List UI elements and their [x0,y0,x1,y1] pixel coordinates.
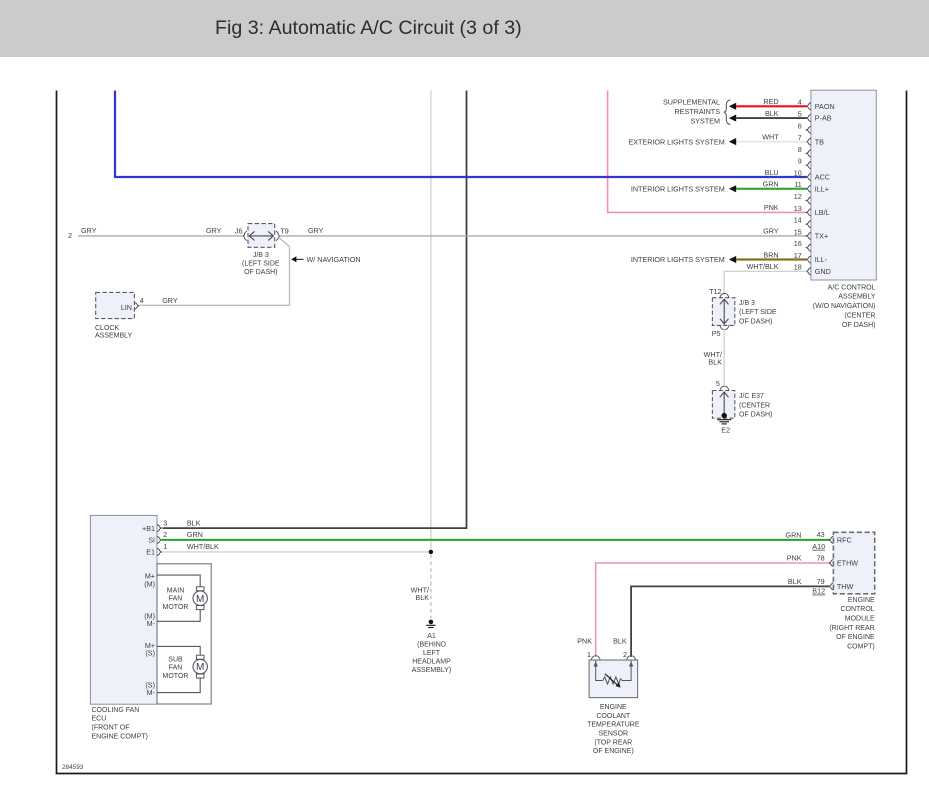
svg-text:LEFT: LEFT [423,650,441,657]
svg-text:INTERIOR LIGHTS SYSTEM: INTERIOR LIGHTS SYSTEM [631,255,725,264]
wire: BLU from top to A/C pin 10 ACC [115,91,807,178]
clock assembly box [96,292,135,318]
svg-text:GRY: GRY [162,296,178,305]
svg-text:ILL-: ILL- [815,255,828,264]
svg-text:(CENTER: (CENTER [739,402,770,409]
svg-text:OF DASH): OF DASH) [244,269,277,276]
svg-text:5: 5 [798,109,802,118]
svg-text:P5: P5 [712,329,721,338]
svg-text:FAN: FAN [169,596,183,603]
svg-text:A10: A10 [812,542,825,551]
J/B 3 junction block (J6/T9) [248,224,275,248]
svg-text:E1: E1 [146,548,155,557]
svg-text:2: 2 [163,530,167,539]
svg-text:(LEFT SIDE: (LEFT SIDE [242,261,280,268]
svg-text:ECU: ECU [92,716,107,723]
sub fan motor M [196,655,204,659]
svg-text:MOTOR: MOTOR [163,673,189,680]
wire: GRY from T9 down to clock assembly [139,237,289,305]
diagram border frame [57,91,907,774]
pin THW 79 [829,583,834,590]
sensor internal wiring [596,661,603,681]
A/C pin 10 [806,173,811,180]
wire: GRN from SI to ECM RFC [162,539,829,541]
supplemental restraints system brace [724,100,730,125]
svg-text:OF ENGINE): OF ENGINE) [593,748,634,755]
svg-text:M: M [196,662,204,673]
J/B 3 internal bus arrow [250,235,274,237]
svg-text:7: 7 [798,133,802,142]
svg-text:(BEHIND: (BEHIND [417,641,446,648]
svg-text:ASSEMBLY): ASSEMBLY) [412,667,452,674]
svg-text:2: 2 [623,650,627,659]
svg-text:CLOCK: CLOCK [95,325,119,332]
svg-text:J/B 3: J/B 3 [253,252,269,259]
svg-text:EXTERIOR LIGHTS SYSTEM: EXTERIOR LIGHTS SYSTEM [628,137,724,146]
svg-text:(FRONT OF: (FRONT OF [92,725,130,732]
A/C pin 8 [806,150,811,157]
svg-text:GRY: GRY [206,226,222,235]
svg-text:J/B 3: J/B 3 [739,300,755,307]
svg-text:OF ENGINE: OF ENGINE [836,634,875,641]
svg-text:MOTOR: MOTOR [163,604,189,611]
wire: PNK ETHW to sensor pin 1 [596,563,830,657]
svg-text:(LEFT SIDE: (LEFT SIDE [739,309,777,316]
wire: BLK THW to sensor pin 2 [631,586,829,657]
svg-text:ETHW: ETHW [837,559,858,568]
svg-text:OF DASH): OF DASH) [842,322,875,329]
svg-text:78: 78 [817,554,825,563]
svg-text:10: 10 [794,168,802,177]
svg-text:13: 13 [794,204,802,213]
svg-text:MODULE: MODULE [845,616,875,623]
svg-text:(RIGHT REAR: (RIGHT REAR [829,625,874,632]
svg-text:6: 6 [798,121,802,130]
svg-text:PNK: PNK [764,203,779,212]
svg-text:P-AB: P-AB [815,114,832,123]
svg-text:1: 1 [587,650,591,659]
wire: WHT/BLK dashed drop to ground A1 [430,555,432,618]
svg-text:ENGINE COMPT): ENGINE COMPT) [92,733,148,740]
wire: GRY from T9 to A/C pin 15 TX+ [280,235,807,237]
svg-text:GRN: GRN [763,180,779,189]
svg-text:ASSEMBLY: ASSEMBLY [95,333,133,340]
svg-text:INTERIOR LIGHTS SYSTEM: INTERIOR LIGHTS SYSTEM [631,184,725,193]
svg-text:RESTRAINTS: RESTRAINTS [674,107,720,116]
A/C pin 4 [806,103,811,110]
svg-text:A1: A1 [427,633,436,640]
A/C pin 17 [806,256,811,263]
svg-text:BLK: BLK [613,637,627,646]
junction P5 [720,325,729,329]
svg-text:SENSOR: SENSOR [599,730,629,737]
J/C E37 internal arrow [723,392,725,416]
svg-text:HEADLAMP: HEADLAMP [412,658,451,665]
svg-text:+B1: +B1 [142,524,155,533]
svg-text:12: 12 [794,192,802,201]
svg-text:18: 18 [794,263,802,272]
svg-text:RFC: RFC [837,536,852,545]
svg-text:8: 8 [798,145,802,154]
svg-text:GRY: GRY [81,226,97,235]
svg-text:BLK: BLK [415,593,429,602]
svg-text:15: 15 [794,227,802,236]
wire: WHT/BLK from pin 18 GND to T12 [724,271,806,294]
A/C pin 13 [806,209,811,216]
junction dot [429,550,433,554]
svg-text:(W/O NAVIGATION): (W/O NAVIGATION) [813,303,876,310]
thermistor element [603,677,622,684]
svg-text:GRN: GRN [786,531,802,540]
J/B 3 junction block (T12/P5) [712,298,734,326]
svg-text:BLK: BLK [765,109,779,118]
main fan motor wiring loop [157,575,200,587]
A/C pin 11 [806,185,811,192]
pin ETHW 78 [829,559,834,566]
svg-text:4: 4 [140,296,144,305]
svg-text:PNK: PNK [577,637,592,646]
svg-text:BLK: BLK [788,577,802,586]
svg-text:BRN: BRN [763,250,778,259]
svg-text:W/ NAVIGATION: W/ NAVIGATION [307,255,361,264]
svg-text:TB: TB [815,137,824,146]
svg-text:GRY: GRY [308,226,324,235]
A/C control assembly box [811,90,876,280]
svg-text:5: 5 [716,379,720,388]
svg-text:(M): (M) [144,580,155,589]
svg-text:WHT: WHT [762,132,779,141]
A/C pin 18 [806,268,811,275]
wire: WHT/BLK P5 to J/C E37 [723,329,725,387]
svg-text:GND: GND [815,267,831,276]
cooling fan ECU box [90,515,157,704]
svg-text:(S): (S) [145,648,155,657]
svg-text:CONTROL: CONTROL [840,606,874,613]
svg-text:PNK: PNK [787,554,802,563]
svg-text:THW: THW [837,582,854,591]
svg-text:ENGINE: ENGINE [848,597,875,604]
svg-text:M-: M- [147,619,156,628]
svg-text:ASSEMBLY: ASSEMBLY [838,294,876,301]
A/C pin 12 [806,197,811,204]
svg-text:16: 16 [794,239,802,248]
J/B 3 internal bus arrow [723,299,725,323]
wire: BRN to pin 17 [736,258,806,260]
svg-text:284593: 284593 [62,764,84,771]
ground A1 [429,620,434,625]
wire: BLK to pin 5 [736,117,806,119]
svg-text:FAN: FAN [169,665,183,672]
svg-text:WHT/BLK: WHT/BLK [747,262,779,271]
main fan motor M [196,587,204,591]
ground E2 [717,419,731,421]
A/C pin 5 [806,114,811,121]
junction T9 [276,231,280,240]
svg-text:B12: B12 [812,587,825,596]
svg-text:9: 9 [798,157,802,166]
svg-text:Fig 3: Automatic A/C Circuit (: Fig 3: Automatic A/C Circuit (3 of 3) [215,17,522,39]
svg-text:GRY: GRY [763,227,779,236]
J/C E37 junction connector [712,391,734,419]
fan shroud box [157,564,211,704]
svg-text:BLU: BLU [765,168,779,177]
svg-text:SUPPLEMENTAL: SUPPLEMENTAL [663,98,720,107]
svg-text:ILL+: ILL+ [815,184,829,193]
svg-text:J6: J6 [235,227,243,236]
svg-text:COOLANT: COOLANT [596,713,631,720]
svg-text:T9: T9 [280,227,288,236]
W/ NAVIGATION branch arrow [291,256,296,262]
svg-text:1: 1 [163,542,167,551]
svg-text:SYSTEM: SYSTEM [690,117,720,126]
wire: WHT/BLK from E1 to junction [162,551,431,553]
svg-text:T12: T12 [709,287,721,296]
svg-text:RED: RED [763,97,778,106]
A/C pin 15 [806,232,811,239]
svg-text:3: 3 [163,518,167,527]
svg-text:OF DASH): OF DASH) [739,319,772,326]
svg-text:A/C CONTROL: A/C CONTROL [828,284,876,291]
svg-text:ENGINE: ENGINE [600,704,627,711]
wire: BLK from top to cooling fan ECU pin 3 [163,91,467,529]
svg-text:BLK: BLK [708,358,722,367]
svg-text:BLK: BLK [187,518,201,527]
engine control module box [833,532,874,594]
svg-text:TX+: TX+ [815,232,828,241]
svg-text:E2: E2 [721,425,730,434]
wire: GRY from edge to J6 [78,235,244,237]
svg-text:(TOP REAR: (TOP REAR [594,739,632,746]
svg-text:(CENTER: (CENTER [844,313,875,320]
wire: RED to pin 4 [736,105,806,107]
wire: WHT to pin 7 [736,141,806,143]
svg-text:ACC: ACC [815,173,830,182]
svg-text:M: M [196,594,204,605]
svg-text:COMPT): COMPT) [847,643,875,650]
svg-text:LB/L: LB/L [815,208,830,217]
wire: PNK vertical from top to A/C pin 13 [608,91,807,213]
svg-text:MAIN: MAIN [167,588,185,595]
A/C pin 9 [806,162,811,169]
A/C pin 6 [806,126,811,133]
A/C pin 7 [806,138,811,145]
svg-text:PAON: PAON [815,102,835,111]
svg-text:LIN: LIN [121,303,132,312]
engine coolant temperature sensor box [589,660,638,698]
wire: WHT/BLK vertical from top to junction [430,91,432,552]
svg-text:43: 43 [817,530,825,539]
svg-text:M-: M- [147,688,156,697]
svg-text:WHT/BLK: WHT/BLK [187,542,219,551]
svg-text:SI: SI [148,536,155,545]
svg-text:2: 2 [68,231,72,240]
sub fan motor wiring loop [157,646,200,655]
A/C pin 16 [806,244,811,251]
wire: GRN to pin 11 [736,188,806,190]
title bar [0,0,929,57]
svg-text:TEMPERATURE: TEMPERATURE [587,722,640,729]
svg-text:J/C E37: J/C E37 [739,393,764,400]
svg-text:GRN: GRN [187,530,203,539]
svg-text:OF DASH): OF DASH) [739,412,772,419]
pin RFC 43 [829,536,834,543]
svg-text:COOLING FAN: COOLING FAN [92,707,140,714]
svg-text:14: 14 [794,216,802,225]
A/C pin 14 [806,221,811,228]
svg-text:79: 79 [817,577,825,586]
svg-text:SUB: SUB [168,656,183,663]
